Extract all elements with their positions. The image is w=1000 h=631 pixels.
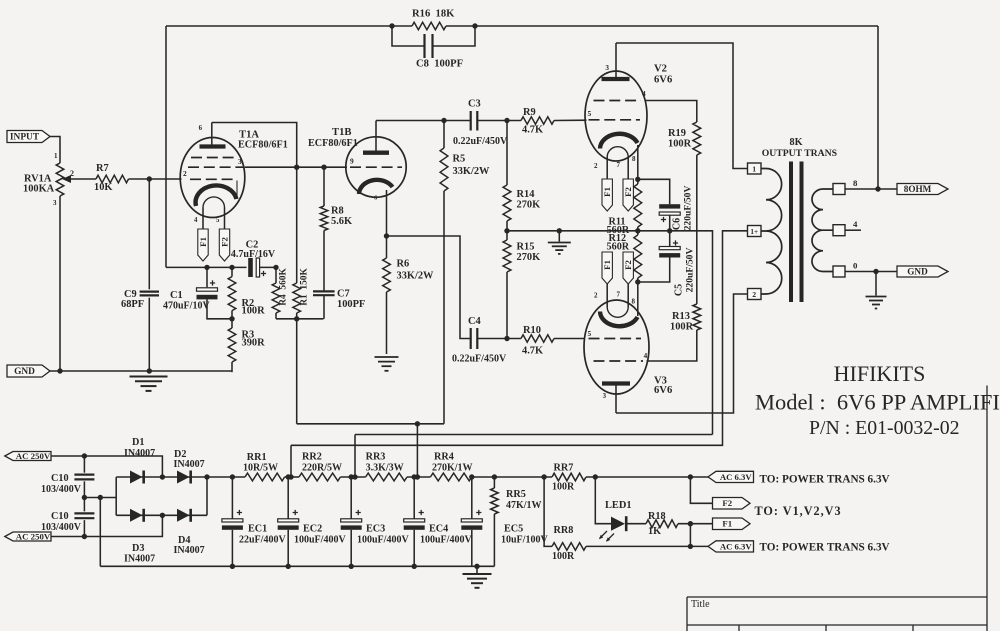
node R1 bottom [294, 316, 299, 321]
svg-text:6V6: 6V6 [654, 385, 672, 396]
node EC4 bottom [412, 564, 417, 569]
svg-text:2: 2 [183, 169, 187, 178]
connector F2 of V2 [623, 179, 633, 211]
node C6 C5 [667, 228, 672, 233]
resistor RR5 [493, 477, 495, 488]
wire tap4 stub [845, 229, 861, 231]
node B1 [288, 474, 293, 479]
svg-text:R1 150K: R1 150K [300, 268, 310, 306]
svg-text:270K: 270K [517, 200, 541, 211]
svg-text:4: 4 [642, 89, 646, 98]
resistor R1 [296, 167, 298, 283]
node V2 cathode [635, 177, 640, 182]
T1A grid row 1 [191, 157, 236, 159]
node bridge top mid [160, 474, 165, 479]
resistor R16 [412, 22, 446, 29]
wire input to pot [50, 137, 60, 164]
svg-text:270K/1W: 270K/1W [432, 463, 473, 474]
wire gnd riser [99, 498, 101, 567]
svg-text:P/N : E01-0032-02: P/N : E01-0032-02 [809, 417, 960, 439]
node C9 top [147, 176, 152, 181]
svg-text:2: 2 [70, 169, 74, 178]
wire riser B1 [290, 445, 292, 477]
svg-text:AC 250V: AC 250V [16, 451, 51, 461]
svg-text:4.7K: 4.7K [522, 346, 543, 357]
svg-text:F1: F1 [198, 237, 208, 247]
connector F1 of V2 [602, 179, 612, 211]
node EC1 bottom [230, 564, 235, 569]
resistor R2 [231, 267, 233, 276]
svg-text:R6: R6 [397, 259, 410, 270]
resistor R9 [521, 117, 554, 124]
diode D2 [177, 471, 189, 484]
capacitor C10a [83, 456, 85, 473]
svg-text:3: 3 [605, 64, 609, 72]
wire tap8 out [845, 188, 897, 190]
wire C3 to R9 [477, 120, 521, 122]
resistor R6 [386, 236, 388, 258]
wire cathode to C4 drop [387, 236, 471, 339]
svg-text:1: 1 [752, 165, 756, 174]
node C10a top [82, 453, 87, 458]
potentiometer RV1A [56, 163, 64, 196]
svg-text:0: 0 [853, 261, 858, 271]
V2 plate [602, 77, 630, 81]
C6 plus [661, 217, 666, 222]
wire R18 to F1 [678, 523, 713, 525]
svg-text:AC 6.3V: AC 6.3V [720, 472, 753, 482]
wire C8 loop [392, 26, 424, 46]
EC3 plus [356, 510, 361, 515]
wire feedback right drop [877, 26, 879, 189]
svg-text:100PF: 100PF [337, 299, 365, 310]
svg-text:33K/2W: 33K/2W [453, 166, 491, 177]
connector AC 6.3V top [708, 471, 754, 482]
svg-text:T1B: T1B [332, 127, 351, 138]
tap 8 box [833, 184, 845, 195]
T1A grid row 3 [190, 178, 235, 180]
wire R9 to V2 grid [554, 119, 587, 121]
svg-text:IN4007: IN4007 [124, 554, 155, 565]
wire tap0 gnd stub [875, 272, 877, 296]
svg-text:V2: V2 [654, 64, 667, 75]
connector AC 250V top [5, 452, 51, 461]
svg-text:5: 5 [216, 217, 220, 224]
connector 8OHM [897, 184, 948, 195]
node R5 top [441, 118, 446, 123]
LED1 arrows [600, 531, 615, 541]
wire riser B3 [416, 424, 418, 477]
V2 cathode arc [600, 134, 638, 149]
svg-text:INPUT: INPUT [10, 133, 40, 143]
wire pin3 rail to T1B [245, 166, 347, 168]
svg-text:R10: R10 [523, 325, 541, 336]
svg-text:7: 7 [617, 161, 621, 169]
connector F1 of T1A [198, 229, 208, 261]
diode D1 [130, 471, 142, 484]
wire T1B cathode [386, 190, 388, 236]
svg-text:8: 8 [632, 298, 636, 306]
resistor RR7 [552, 473, 586, 481]
wire bridge top row [116, 476, 245, 478]
ground psu [476, 566, 478, 573]
svg-text:F1: F1 [602, 260, 612, 270]
wire R4R1C7 bottom [276, 318, 324, 320]
svg-text:ECF80/6F1: ECF80/6F1 [308, 138, 358, 149]
wire rail RR4 to RR7 [472, 476, 552, 478]
tube T1B envelope [346, 137, 406, 197]
wire R13 to V3 screen [647, 330, 697, 361]
wire C10 mid to bridge [84, 497, 116, 499]
T1B cathode arc [359, 180, 393, 194]
wire F2 feed [690, 477, 712, 503]
node EC2 bottom [286, 564, 291, 569]
T1B grid row [350, 166, 402, 168]
svg-text:IN4007: IN4007 [124, 448, 155, 459]
wire R10 to V3 grid [554, 338, 585, 340]
wire run B [355, 434, 713, 436]
svg-text:4: 4 [194, 217, 198, 224]
wire RR7 to AC63 [586, 476, 709, 478]
wire cathode rail [166, 266, 247, 268]
diode D3 [130, 509, 142, 522]
svg-text:TO: V1,V2,V3: TO: V1,V2,V3 [755, 504, 842, 518]
resistor R3 [231, 319, 233, 328]
svg-text:TO: POWER TRANS 6.3V: TO: POWER TRANS 6.3V [760, 474, 890, 486]
node R11 R12 [635, 228, 640, 233]
svg-text:R16 18K: R16 18K [412, 9, 455, 20]
node T1B cathode [384, 233, 389, 238]
wire riser B2 [354, 435, 356, 478]
svg-text:R14: R14 [517, 189, 535, 200]
svg-text:8OHM: 8OHM [904, 184, 932, 194]
T1B plate [363, 151, 389, 155]
wire run A [297, 423, 444, 425]
resistor R10 [521, 335, 554, 342]
svg-text:C5: C5 [674, 284, 685, 296]
C1 plus [210, 280, 215, 285]
resistor R14 [506, 121, 508, 186]
capacitor C4 [471, 328, 478, 349]
svg-text:4: 4 [644, 351, 648, 360]
capacitor C3 [471, 111, 478, 131]
diode D4 [177, 509, 189, 522]
svg-text:3: 3 [238, 157, 242, 166]
tap 1+ box [748, 226, 762, 237]
tube V3 envelope [584, 300, 649, 394]
svg-text:33K/2W: 33K/2W [397, 271, 435, 282]
ground R6 [375, 356, 399, 358]
resistor R7 [96, 175, 129, 183]
svg-text:9: 9 [350, 157, 354, 166]
V3 grid row [589, 338, 642, 340]
svg-text:EC3: EC3 [366, 524, 385, 535]
capacitor EC3 [350, 477, 352, 519]
resistor RR4 [430, 473, 471, 481]
svg-text:RR3: RR3 [366, 452, 386, 463]
capacitor C7 [323, 231, 325, 292]
node R14 R15 [504, 228, 509, 233]
svg-text:2: 2 [752, 290, 756, 299]
connector INPUT [7, 131, 50, 143]
svg-text:10R/5W: 10R/5W [243, 463, 278, 474]
capacitor C8 [425, 34, 433, 58]
capacitor C10b [83, 498, 85, 512]
svg-text:C4: C4 [468, 316, 481, 327]
wire C2 right [260, 266, 276, 268]
svg-text:R19: R19 [668, 128, 686, 139]
connector AC 250V bottom [5, 532, 51, 541]
svg-text:R9: R9 [523, 107, 536, 118]
svg-text:100uF/400V: 100uF/400V [357, 535, 409, 546]
svg-text:LED1: LED1 [605, 500, 632, 511]
svg-text:Model : 6V6 PP AMPLIFIER: Model : 6V6 PP AMPLIFIER [755, 390, 1000, 415]
V3 screen row [594, 360, 644, 362]
node C10 mid [82, 495, 87, 500]
svg-text:8: 8 [632, 155, 636, 163]
node tap0 gnd [873, 269, 878, 274]
svg-text:560R: 560R [607, 242, 630, 253]
wire pot wiper [68, 178, 96, 180]
svg-text:5.6K: 5.6K [331, 216, 352, 227]
connector F1 of V3 [602, 252, 612, 284]
capacitor C2 [248, 258, 253, 277]
capacitor C6 [638, 179, 670, 204]
tube V2 envelope [585, 71, 647, 161]
svg-text:C10: C10 [51, 511, 69, 522]
transformer core [789, 162, 793, 303]
svg-text:R4 560K: R4 560K [279, 268, 289, 306]
svg-text:4: 4 [853, 219, 858, 229]
ground mid [558, 231, 560, 242]
ground input [130, 376, 168, 378]
connector F2 out [713, 498, 751, 510]
connector F2 of T1A [219, 229, 229, 261]
tap 1 box [748, 163, 762, 174]
resistor RR3 [366, 473, 407, 481]
svg-text:IN4007: IN4007 [174, 545, 205, 556]
title block [687, 386, 987, 631]
capacitor EC1 [231, 477, 233, 519]
node C1 top [204, 265, 209, 270]
svg-text:F2: F2 [623, 187, 633, 197]
ground speaker [866, 296, 887, 298]
svg-text:EC5: EC5 [504, 524, 523, 535]
node EC2 top [286, 474, 291, 479]
svg-text:100R: 100R [670, 322, 694, 333]
node EC1 top [230, 474, 235, 479]
capacitor C9 [148, 179, 150, 289]
wire T1A plate run [212, 123, 297, 168]
wire T1B plate to C3 [376, 120, 470, 122]
svg-text:47K/1W: 47K/1W [506, 500, 542, 511]
svg-text:AC 250V: AC 250V [16, 531, 51, 541]
T1A plate [200, 144, 226, 148]
node humdinger [541, 474, 546, 479]
T1A grid row 2 [188, 166, 243, 168]
svg-text:C3: C3 [468, 99, 481, 110]
svg-text:R18: R18 [648, 511, 666, 522]
svg-text:C7: C7 [337, 289, 350, 300]
svg-text:GND: GND [14, 367, 35, 377]
node AC bottom [82, 534, 87, 539]
node feedback 8ohm [875, 186, 880, 191]
connector GND speaker [897, 266, 948, 277]
node C4 R15 [504, 336, 509, 341]
node run A riser [415, 421, 420, 426]
svg-text:C10: C10 [51, 473, 69, 484]
wire V3 plate to transformer [616, 294, 748, 413]
wire bridge right [206, 477, 208, 515]
wire screen drop [696, 155, 698, 304]
resistor R18 [646, 520, 678, 528]
wire LED drop [595, 477, 611, 524]
node B2 [352, 474, 357, 479]
svg-text:ECF80/6F1: ECF80/6F1 [238, 140, 288, 151]
LED LED1 [611, 517, 625, 531]
connector AC 6.3V bottom [708, 541, 754, 552]
resistor RR1 [245, 473, 285, 481]
capacitor EC5 [471, 477, 473, 519]
V3 plate [602, 381, 630, 385]
EC4 plus [419, 510, 424, 515]
svg-text:RR4: RR4 [434, 452, 454, 463]
node gnd riser [98, 495, 103, 500]
svg-text:220R/5W: 220R/5W [302, 463, 342, 474]
svg-text:GND: GND [907, 267, 928, 277]
svg-text:3.3K/3W: 3.3K/3W [366, 463, 404, 474]
svg-text:R15: R15 [517, 242, 535, 253]
svg-text:C6: C6 [672, 218, 683, 230]
wire LED to R18 [628, 523, 647, 525]
svg-text:3: 3 [53, 199, 57, 207]
wire humdinger drop [544, 477, 552, 546]
wire R12 to V3 cathode [637, 278, 639, 316]
svg-text:103/400V: 103/400V [41, 484, 82, 495]
svg-text:D1: D1 [132, 437, 144, 448]
wire pot bottom to gnd rail [59, 196, 61, 371]
C2 plus [261, 271, 266, 276]
svg-text:R8: R8 [331, 206, 344, 217]
resistor R15 [506, 231, 508, 240]
connector F2 of V3 [623, 252, 633, 284]
resistor R4 [275, 267, 277, 283]
wire rail RR2-RR3 [340, 476, 365, 478]
node RR5 top [492, 474, 497, 479]
T1A cathode arc [196, 185, 237, 206]
wire top rail right of R16 [446, 25, 878, 27]
node EC4 top [412, 474, 417, 479]
wire AC top [51, 456, 162, 477]
V2 grid row [589, 119, 641, 121]
svg-text:390R: 390R [242, 338, 266, 349]
svg-text:68PF: 68PF [121, 299, 144, 310]
transformer secondary [812, 189, 833, 272]
svg-text:10uF/100V: 10uF/100V [501, 535, 548, 546]
node C9 gnd [147, 368, 152, 373]
svg-text:100uF/400V: 100uF/400V [294, 535, 346, 546]
svg-text:1K: 1K [648, 526, 661, 537]
svg-text:RR8: RR8 [554, 525, 574, 536]
V3 heater [606, 284, 608, 307]
wire RR8 to AC63 [586, 545, 709, 547]
svg-text:100KA: 100KA [23, 184, 55, 195]
svg-text:2: 2 [594, 162, 598, 170]
resistor RR2 [299, 473, 340, 481]
V2 heater [606, 157, 608, 179]
EC1 plus [237, 510, 242, 515]
node LED feed [593, 474, 598, 479]
wire rail RR3-RR4 [407, 476, 430, 478]
node bridge out [204, 474, 209, 479]
capacitor C1 [206, 267, 208, 287]
node R18 F1 [688, 521, 693, 526]
node F2 drop [688, 474, 693, 479]
connector F1 out [713, 518, 751, 530]
wire rail RR1-RR2 [285, 476, 299, 478]
node EC3 bottom [349, 564, 354, 569]
resistor R5 [443, 121, 445, 149]
node psu gnd [474, 564, 479, 569]
capacitor C5 [669, 231, 671, 247]
node R2 bottom [229, 316, 234, 321]
node gnd stub [557, 228, 562, 233]
svg-text:100R: 100R [552, 482, 575, 493]
node bridge bottom mid [160, 513, 165, 518]
svg-text:Title: Title [691, 599, 710, 610]
node R16 left [389, 23, 394, 28]
tap 2 box [748, 289, 762, 300]
svg-text:100R: 100R [668, 139, 692, 150]
node pot gnd [57, 368, 62, 373]
svg-text:C1: C1 [170, 290, 183, 301]
wire gnd rail [50, 370, 232, 372]
svg-text:RR7: RR7 [554, 463, 574, 474]
tap 0 box [833, 266, 845, 277]
svg-text:RR5: RR5 [506, 489, 526, 500]
EC2 plus [293, 510, 298, 515]
svg-text:TO: POWER TRANS 6.3V: TO: POWER TRANS 6.3V [760, 542, 890, 554]
wire V2 screen [646, 101, 697, 123]
resistor R13 [693, 304, 701, 330]
svg-text:7: 7 [617, 291, 621, 299]
wire tap0 out [845, 271, 897, 273]
svg-text:100R: 100R [552, 551, 575, 562]
svg-text:R13: R13 [672, 311, 690, 322]
svg-text:IN4007: IN4007 [174, 459, 205, 470]
svg-text:3: 3 [603, 393, 607, 400]
svg-text:8K: 8K [789, 137, 802, 148]
svg-text:8: 8 [853, 178, 858, 188]
svg-text:F2: F2 [722, 498, 732, 508]
svg-text:EC2: EC2 [303, 524, 322, 535]
svg-text:R5: R5 [453, 154, 466, 165]
svg-text:220uF/50V: 220uF/50V [685, 248, 696, 293]
wire C4 to R10 [477, 338, 521, 340]
resistor RR8 [552, 543, 586, 551]
capacitor EC4 [413, 477, 415, 519]
node EC3 top [349, 474, 354, 479]
tap 4 box [833, 225, 845, 236]
wire V2 cathode [637, 145, 639, 179]
svg-text:OUTPUT TRANS: OUTPUT TRANS [762, 148, 837, 159]
svg-text:1+: 1+ [750, 228, 758, 236]
wire F1 drop [689, 524, 691, 547]
wire AC bottom [51, 515, 162, 536]
wire bridge left [115, 477, 117, 515]
EC5 plus [476, 510, 481, 515]
resistor R8 [323, 167, 325, 206]
